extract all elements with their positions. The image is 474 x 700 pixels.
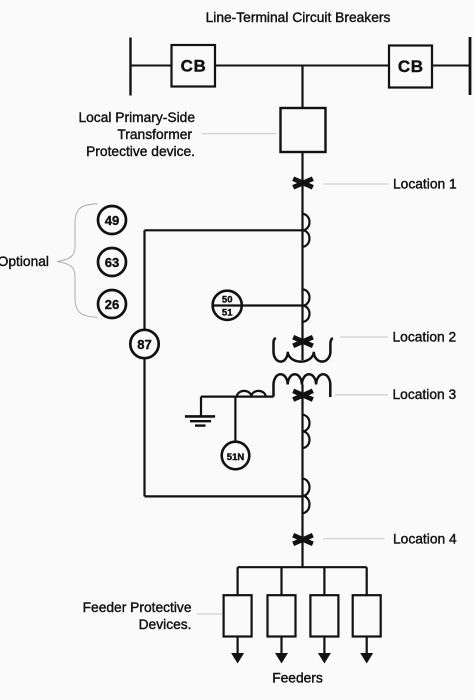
- CT at differential bottom tap: [303, 479, 310, 513]
- wire: top bus right segment: [432, 65, 470, 67]
- wire: junction to differential branch (top): [145, 229, 303, 231]
- relay circle 63: [98, 248, 126, 276]
- svg-text:87: 87: [137, 337, 151, 352]
- wire: secondary center lead down: [301, 385, 303, 568]
- label connector to feeder box 1: [197, 613, 223, 615]
- feeder protective device box 1: [224, 595, 252, 636]
- label connector Location 4: [323, 538, 385, 540]
- wire: feeder drop 1: [237, 567, 239, 595]
- fault X at Location 3: [292, 389, 314, 402]
- transformer secondary winding: [274, 374, 331, 397]
- ground: [185, 397, 215, 426]
- CT below transformer: [303, 415, 310, 448]
- right line terminal: [469, 37, 472, 95]
- label connector to device box: [202, 133, 277, 135]
- CT on neutral (51N): [237, 391, 266, 397]
- svg-text:26: 26: [105, 297, 119, 312]
- svg-text:Location 4: Location 4: [393, 531, 457, 546]
- fault X at Location 2: [292, 335, 314, 348]
- svg-text:CB: CB: [398, 57, 424, 76]
- svg-text:Devices.: Devices.: [139, 617, 192, 632]
- wire: main vertical from bus to device box: [301, 66, 303, 109]
- svg-text:Optional: Optional: [0, 254, 49, 269]
- feeder protective device box 4: [353, 595, 381, 636]
- svg-text:51: 51: [222, 307, 233, 318]
- feeder arrow 3: [318, 637, 331, 664]
- wire: drop to 51N relay: [234, 397, 236, 442]
- transformer primary winding: [273, 338, 332, 361]
- feeder protective device box 3: [310, 595, 338, 636]
- fault X at Location 4: [292, 533, 314, 546]
- label connector Location 3: [335, 394, 388, 396]
- svg-text:Location 3: Location 3: [393, 387, 457, 402]
- CT (current transformer) below Location 1: [303, 214, 310, 247]
- wire: junction to differential branch (bottom): [145, 495, 303, 497]
- wire: top bus center segment: [215, 65, 389, 67]
- svg-text:Line-Terminal Circuit Breakers: Line-Terminal Circuit Breakers: [206, 10, 391, 25]
- label: Feeder Protective Devices.: [83, 600, 192, 632]
- feeder protective device box 2: [268, 595, 296, 636]
- wire: left differential branch lower segment: [143, 358, 145, 496]
- svg-text:63: 63: [105, 255, 119, 270]
- wire: left differential branch upper segment: [143, 230, 145, 330]
- label: Local Primary-Side Transformer Protective device.: [78, 110, 195, 159]
- circuit breaker CB right: [389, 46, 432, 88]
- svg-text:49: 49: [105, 213, 119, 228]
- left line terminal: [129, 38, 131, 96]
- svg-text:Feeders: Feeders: [272, 670, 323, 685]
- svg-text:Protective device.: Protective device.: [86, 144, 195, 159]
- wire: feeder drop 2: [280, 567, 282, 595]
- circuit breaker CB left: [172, 45, 216, 87]
- svg-text:50: 50: [222, 294, 233, 305]
- svg-text:51N: 51N: [227, 452, 245, 463]
- wire: tap to 50/51 relay: [242, 304, 303, 306]
- relay circle 49: [98, 206, 126, 234]
- wire: feeder drop 3: [323, 567, 325, 595]
- curly brace for optional relays: [57, 204, 98, 317]
- relay circle 26: [98, 290, 126, 318]
- svg-text:CB: CB: [181, 57, 207, 76]
- relay circle 51N: [222, 442, 250, 470]
- svg-text:Transformer: Transformer: [117, 127, 192, 142]
- CT at 50/51 tap: [303, 289, 310, 321]
- fault X at Location 1: [292, 176, 314, 189]
- relay circle 87 (differential): [130, 330, 158, 358]
- label connector Location 2: [340, 336, 388, 338]
- feeder arrow 1: [231, 637, 244, 664]
- label connector Location 1: [324, 183, 389, 185]
- wire: transformer neutral: [201, 396, 274, 398]
- wire: top bus left segment: [131, 65, 172, 67]
- svg-text:Location 1: Location 1: [393, 177, 457, 192]
- wire: device box to X1: [301, 152, 303, 360]
- svg-text:Location 2: Location 2: [393, 330, 457, 345]
- wire: feeder bus: [238, 566, 367, 568]
- feeder arrow 4: [360, 637, 373, 664]
- relay circle 50/51: [213, 291, 242, 320]
- transformer protective device box: [281, 108, 326, 152]
- svg-text:Feeder Protective: Feeder Protective: [83, 600, 192, 615]
- wire: feeder drop 4: [366, 567, 368, 595]
- feeder arrow 2: [275, 637, 288, 664]
- svg-text:Local Primary-Side: Local Primary-Side: [78, 110, 195, 125]
